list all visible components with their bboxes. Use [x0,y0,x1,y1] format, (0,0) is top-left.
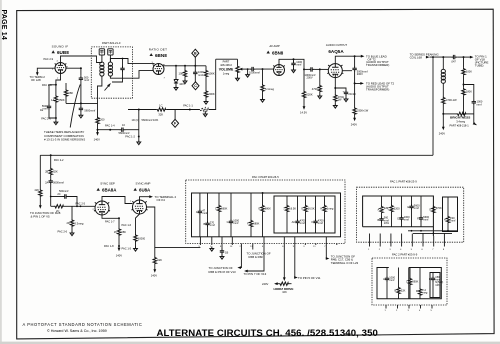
svg-text:3.4meg: 3.4meg [456,120,465,124]
svg-text:SOUND IF: SOUND IF [52,45,69,49]
svg-text:1meg: 1meg [223,72,230,76]
svg-text:AF AMP: AF AMP [268,44,279,48]
svg-text:100K: 100K [466,70,472,74]
svg-text:6U8A: 6U8A [139,188,151,193]
svg-text:mmf: mmf [404,218,409,222]
svg-text:COIL L68: COIL L68 [410,56,423,60]
svg-text:240V: 240V [439,131,445,135]
svg-text:A: A [377,208,379,212]
svg-text:16.5K: 16.5K [289,207,296,211]
svg-text:R6B & R6F: R6B & R6F [249,255,264,259]
svg-text:PAC 2-5: PAC 2-5 [76,201,86,205]
svg-text:G: G [301,207,303,211]
svg-text:mmf: mmf [450,219,455,223]
svg-text:SYNC AMP: SYNC AMP [136,182,151,186]
svg-text:140V: 140V [94,138,100,142]
svg-text:PAC 1-7: PAC 1-7 [105,220,115,224]
svg-text:K: K [311,220,313,224]
svg-text:3.3meg: 3.3meg [74,222,83,226]
svg-text:PAC 2-9: PAC 2-9 [44,57,54,61]
svg-text:5600mmf 10%: 5600mmf 10% [142,118,159,122]
svg-text:PAC 1-4: PAC 1-4 [105,123,115,127]
svg-text:mmf: mmf [423,218,428,222]
svg-text:E: E [258,207,260,211]
svg-text:62K: 62K [157,258,162,262]
svg-text:A: A [196,210,198,214]
svg-text:1A: 1A [51,98,54,102]
svg-text:2B: 2B [45,170,48,174]
svg-text:PART #22-21-0: PART #22-21-0 [102,41,121,45]
svg-text:mmf: mmf [318,221,323,225]
svg-text:32K: 32K [158,112,163,116]
svg-text:560K: 560K [221,207,227,211]
svg-text:5.1meg: 5.1meg [265,87,274,91]
svg-text:.047: .047 [451,59,457,63]
svg-text:240V: 240V [351,123,357,127]
svg-text:B: B [194,52,197,56]
svg-text:22K: 22K [401,289,406,293]
svg-text:PART #28-218-1: PART #28-218-1 [450,124,470,128]
svg-text:mmf: mmf [389,278,394,282]
svg-text:32K: 32K [53,170,58,174]
svg-text:1D (C): 1D (C) [132,118,140,122]
svg-text:D: D [397,217,399,221]
svg-text:1B: 1B [225,251,228,255]
svg-text:250K: 250K [59,98,65,102]
svg-text:10%: 10% [384,221,390,225]
svg-text:PAC 1-2: PAC 1-2 [125,135,135,139]
svg-text:mmf: mmf [202,211,207,215]
svg-text:AC: AC [292,220,296,224]
svg-text:200V: 200V [307,76,313,80]
svg-text:2A: 2A [45,181,48,185]
svg-text:AUDIO OUTPUT: AUDIO OUTPUT [326,43,347,47]
svg-text:PAC 2-2: PAC 2-2 [54,158,64,162]
svg-text:680K: 680K [265,207,271,211]
svg-text:mmf: mmf [43,107,48,111]
svg-text:mmf: mmf [210,223,215,227]
svg-text:6BA8A: 6BA8A [102,188,117,193]
svg-text:5600mmf: 5600mmf [84,109,95,113]
svg-text:2200: 2200 [99,118,105,122]
svg-text:E: E [429,277,431,281]
svg-text:PAC 1-1: PAC 1-1 [183,104,193,108]
svg-text:OF K4: OF K4 [157,198,166,202]
svg-text:TRANSFORMER): TRANSFORMER) [366,88,389,92]
svg-text:mmf: mmf [300,221,305,225]
svg-text:1000mmf: 1000mmf [249,71,260,75]
svg-text:10K: 10K [282,290,287,294]
svg-text:16.5K: 16.5K [308,207,315,211]
svg-text:5600mmf: 5600mmf [119,131,130,135]
svg-text:mmf: mmf [233,221,238,225]
svg-text:68K: 68K [121,230,126,234]
svg-text:140V: 140V [151,273,157,277]
svg-text:PAGE 14: PAGE 14 [0,10,7,40]
svg-text:G: G [429,208,431,212]
svg-text:meg: meg [422,292,428,295]
svg-text:H: H [320,207,322,211]
svg-text:G: G [227,220,229,224]
svg-text:1C: 1C [159,104,162,108]
svg-text:C: C [387,207,389,211]
svg-text:68K: 68K [68,91,73,95]
svg-text:mmf: mmf [296,63,301,67]
svg-text:PAC 1 PART #28-23-9: PAC 1 PART #28-23-9 [390,179,417,183]
svg-text:TERMINAL 3 OF L23: TERMINAL 3 OF L23 [331,261,359,265]
svg-text:PAC 1-8: PAC 1-8 [104,244,114,248]
svg-text:E: E [407,205,409,209]
svg-text:10K: 10K [179,72,184,76]
svg-text:# 13-21-3 IN SOME VERSIONS: # 13-21-3 IN SOME VERSIONS [44,138,85,142]
svg-text:D: D [416,289,418,293]
svg-text:390K: 390K [412,280,418,284]
svg-text:680K: 680K [253,222,259,226]
svg-text:TO PIN 7 OF V13: TO PIN 7 OF V13 [244,272,267,276]
svg-text:B: B [394,289,396,293]
svg-text:ALTERNATE CIRCUITS CH. 456. /5: ALTERNATE CIRCUITS CH. 456. /528.51340, … [157,328,378,339]
svg-text:2D: 2D [66,221,69,225]
svg-text:140V: 140V [116,254,122,258]
svg-text:200V: 200V [357,72,363,76]
svg-text:VOLUME: VOLUME [219,68,234,72]
svg-text:10000: 10000 [138,237,146,241]
svg-text:220K: 220K [306,92,312,96]
svg-text:6AQ5A: 6AQ5A [328,49,344,54]
svg-text:mmf: mmf [477,102,482,106]
svg-text:OF L28: OF L28 [31,78,41,82]
svg-text:2200: 2200 [394,207,400,211]
svg-text:5600mmf: 5600mmf [53,181,64,185]
svg-text:PAC 3 PART #23-26-5: PAC 3 PART #23-26-5 [252,175,279,179]
svg-text:H: H [444,218,446,222]
svg-text:14.5V: 14.5V [300,111,307,115]
svg-text:PAC 2-6: PAC 2-6 [58,229,68,233]
svg-text:TO PIN 5 OF V11: TO PIN 5 OF V11 [298,276,321,280]
svg-text:470K: 470K [436,206,442,210]
svg-text:2C: 2C [56,209,59,213]
svg-text:mmf: mmf [198,73,203,77]
svg-text:C: C [406,280,408,284]
svg-text:B: B [203,222,205,226]
svg-text:C: C [194,84,197,88]
svg-text:200K: 200K [208,92,214,96]
svg-text:A: A [383,277,385,281]
svg-text:10%: 10% [435,283,441,287]
svg-text:1meg: 1meg [327,207,334,211]
svg-text:6BN8: 6BN8 [272,50,284,55]
svg-text:20mfd: 20mfd [348,92,356,96]
svg-text:mmf: mmf [84,78,89,82]
svg-text:470K: 470K [312,87,318,91]
svg-text:428-438-0: 428-438-0 [220,63,232,67]
svg-text:RATIO DET: RATIO DET [149,47,167,51]
svg-text:2C: 2C [57,192,60,196]
svg-text:PAC 2-6: PAC 2-6 [41,116,51,120]
svg-text:R6B & PIN 8 OF V13: R6B & PIN 8 OF V13 [209,270,237,274]
svg-text:100K: 100K [208,72,214,76]
svg-text:BRIGHTNESS: BRIGHTNESS [450,116,470,120]
svg-text:B: B [377,218,379,222]
svg-text:240V: 240V [262,282,268,286]
svg-text:PART: PART [223,60,230,64]
svg-text:PAC 1-5: PAC 1-5 [122,246,132,250]
svg-text:mmf: mmf [414,206,419,210]
svg-text:PAC 1-6: PAC 1-6 [122,223,132,227]
svg-text:6UB8: 6UB8 [57,50,69,55]
svg-text:C: C [215,207,217,211]
svg-text:3300+1W: 3300+1W [357,109,369,113]
svg-text:42K: 42K [34,188,39,192]
svg-text:SYNC SEP: SYNC SEP [100,182,115,186]
svg-text:A PHOTOFACT STANDARD NOTATION: A PHOTOFACT STANDARD NOTATION SCHEMATIC [23,322,143,327]
svg-text:TRANSFORMER): TRANSFORMER) [366,63,389,67]
svg-text:180K: 180K [466,89,472,93]
svg-text:TUBE): TUBE) [475,63,484,67]
svg-text:© Howard W. Sams & Co., Inc. 1: © Howard W. Sams & Co., Inc. 1959 [47,329,107,333]
svg-text:PAC 2 PART #23-9-9: PAC 2 PART #23-9-9 [392,252,418,256]
svg-text:1W: 1W [338,98,342,102]
svg-text:& PIN 1 OF V5: & PIN 1 OF V5 [31,215,51,219]
svg-text:6BN8: 6BN8 [155,53,167,58]
svg-text:4700-1W: 4700-1W [446,98,457,102]
